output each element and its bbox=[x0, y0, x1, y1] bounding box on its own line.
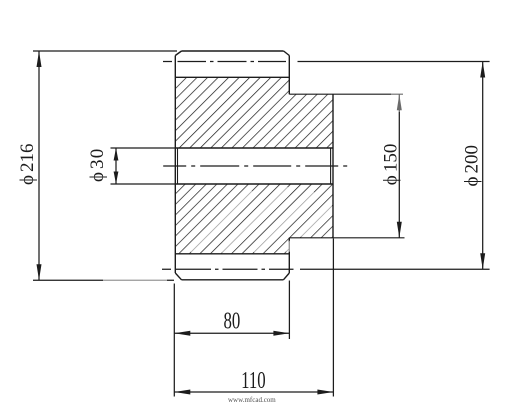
phi150 top arrow bbox=[397, 94, 402, 110]
phi216 dimension line bbox=[38, 51, 40, 280]
pitch circle bottom centerline extension bbox=[300, 268, 490, 270]
110 dimension line bbox=[174, 391, 333, 393]
80 right arrow bbox=[273, 331, 289, 336]
pitch circle top centerline extension bbox=[298, 61, 490, 63]
80 right extension line bbox=[288, 281, 290, 340]
bore chamfer left bbox=[177, 148, 179, 184]
svg-text:ϕ200: ϕ200 bbox=[462, 145, 483, 187]
phi30 top extension line bbox=[111, 147, 177, 149]
gear upper section hatch bbox=[175, 77, 333, 148]
svg-text:www.mfcad.com: www.mfcad.com bbox=[228, 396, 276, 404]
phi30 dimension line bbox=[115, 148, 117, 184]
bore bottom line bbox=[175, 183, 333, 185]
phi200 dimension line bbox=[482, 62, 484, 270]
hub right edge bbox=[332, 94, 334, 238]
bottom left chamfer bbox=[175, 273, 181, 280]
80/110 left extension line bbox=[173, 284, 175, 397]
bore axis centerline bbox=[163, 165, 347, 167]
gear body right edge bbox=[288, 56, 290, 274]
hub bottom line with phi150 extension bbox=[289, 237, 404, 239]
110 right arrow bbox=[317, 390, 333, 395]
phi200 bottom arrow bbox=[480, 253, 485, 269]
110 right extension line bbox=[332, 239, 334, 397]
phi200 top arrow bbox=[480, 62, 485, 78]
gear lower section hatch bbox=[175, 184, 333, 254]
pitch circle top centerline bbox=[163, 61, 294, 63]
phi30 top arrow bbox=[114, 148, 119, 161]
hub top line with phi150 extension bbox=[289, 93, 403, 95]
pitch circle bottom centerline bbox=[162, 268, 297, 270]
top left chamfer bbox=[175, 51, 181, 56]
bore chamfer right bbox=[330, 148, 332, 184]
gear body left edge bbox=[174, 56, 176, 274]
bore top line bbox=[175, 147, 333, 149]
phi216 bottom extension line bbox=[33, 279, 174, 281]
phi216 top extension line bbox=[33, 50, 177, 52]
watermark fade on phi216 bottom extension bbox=[103, 276, 167, 285]
gear tip top line bbox=[182, 50, 284, 52]
root circle bottom line bbox=[175, 253, 289, 255]
svg-text:ϕ216: ϕ216 bbox=[17, 143, 38, 185]
phi150 bottom arrow bbox=[397, 222, 402, 238]
phi216 bottom arrow bbox=[37, 264, 42, 280]
svg-text:80: 80 bbox=[224, 309, 241, 334]
root circle top line bbox=[175, 76, 289, 78]
top right chamfer bbox=[284, 51, 290, 56]
svg-text:110: 110 bbox=[241, 368, 266, 393]
watermark fade on phi150 top arrow bbox=[391, 90, 408, 112]
watermark fading streaks over lower hatch bbox=[175, 192, 330, 252]
svg-text:ϕ150: ϕ150 bbox=[381, 144, 402, 186]
phi150 dimension line bbox=[398, 94, 400, 238]
svg-text:ϕ30: ϕ30 bbox=[87, 148, 108, 182]
phi30 bottom extension line bbox=[111, 183, 177, 185]
80 dimension line bbox=[174, 332, 289, 334]
110 left arrow bbox=[174, 390, 190, 395]
gear tip bottom line bbox=[182, 279, 284, 281]
phi30 bottom arrow bbox=[114, 172, 119, 185]
bottom right chamfer bbox=[283, 273, 289, 280]
80 left arrow bbox=[174, 331, 190, 336]
phi216 top arrow bbox=[37, 51, 42, 67]
